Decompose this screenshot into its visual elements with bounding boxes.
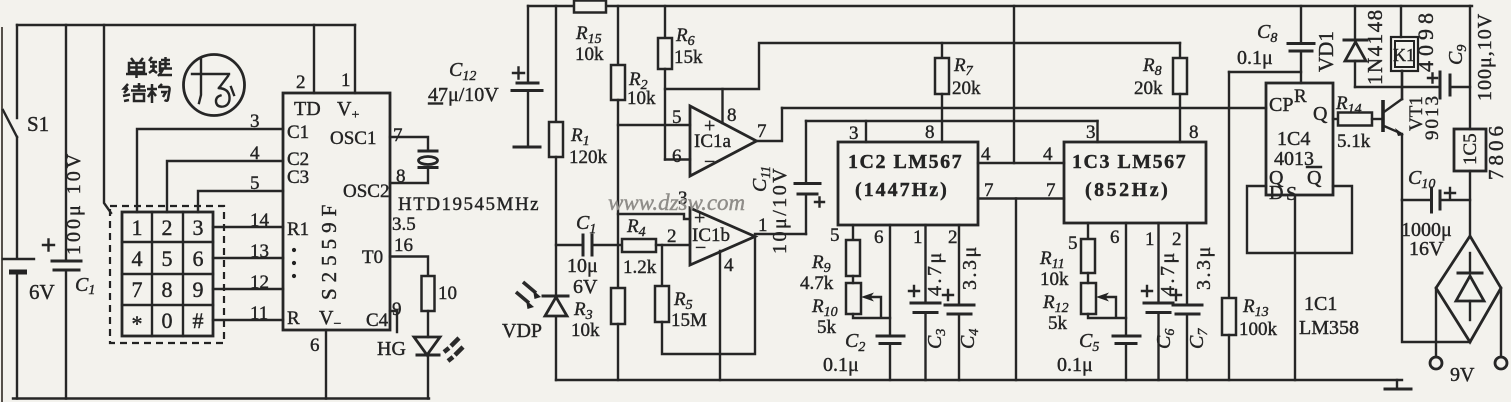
svg-text:6: 6 [193,246,204,271]
svg-text:IC1a: IC1a [694,131,732,152]
svg-text:HG: HG [377,338,406,360]
resistor R13 100k [1228,72,1230,298]
svg-text:5k: 5k [817,317,837,338]
label danjian jiegou (Chinese) [123,57,172,103]
resistor R7 20k [941,43,943,58]
op-amp IC1b [690,208,755,265]
wire R2-R3 column [617,100,619,288]
svg-text:OSC2: OSC2 [343,181,389,202]
wire VD1 to C9 [1355,86,1439,88]
capacitor C3 4.7u [924,225,926,303]
svg-text:6V: 6V [29,280,55,304]
svg-text:3: 3 [193,215,204,240]
svg-text:3.3μ: 3.3μ [959,244,981,290]
capacitor C9 100u10V [1440,72,1450,98]
wire pin5 [618,124,690,126]
wire pin6 [665,158,690,160]
wire left top rail [17,24,355,26]
svg-text:5.1k: 5.1k [1337,131,1371,152]
svg-text:10k: 10k [627,88,656,109]
svg-text:6V: 6V [573,276,598,298]
svg-text:1C4: 1C4 [1277,128,1310,150]
svg-text:CP: CP [1269,94,1293,116]
svg-text:2: 2 [162,215,173,240]
svg-text:10μ: 10μ [567,255,598,277]
svg-text:2: 2 [667,226,677,247]
svg-text:7806: 7806 [1484,122,1508,180]
svg-text:20k: 20k [1134,78,1163,99]
svg-text:T0: T0 [362,247,383,268]
svg-text:K1: K1 [1393,45,1415,65]
svg-text:1: 1 [341,70,351,91]
svg-text:VD1: VD1 [1314,31,1338,72]
svg-text:4098: 4098 [1413,8,1438,72]
svg-text:7: 7 [984,180,994,201]
wire pin1 out IC1b [755,233,806,235]
capacitor C5 0.1u [1125,223,1127,336]
svg-text:Q: Q [1313,103,1328,125]
svg-text:1: 1 [913,227,923,248]
svg-text:15k: 15k [674,47,703,68]
svg-text:4: 4 [724,255,734,276]
wire keypad col3 to pin5 [198,191,283,212]
svg-text:0.1μ: 0.1μ [1057,354,1093,376]
svg-text:15M: 15M [671,310,707,331]
svg-text:20k: 20k [952,78,981,99]
LED arrows [444,338,463,361]
wire C8 node to R13 [1229,71,1301,73]
wire pin2 [313,25,315,93]
wire keypad row1 to pin14 [213,226,283,228]
svg-text:1N4148: 1N4148 [1363,8,1387,85]
wire C11 node to pin3 inputs [806,120,1098,122]
svg-text:3.3μ: 3.3μ [1193,244,1215,290]
svg-text:13: 13 [250,241,269,262]
resistor R10 5k pot [846,283,861,314]
svg-text:www.dzsw.com: www.dzsw.com [608,190,745,215]
svg-text:7: 7 [132,277,143,302]
wire pin1 [354,25,356,93]
svg-text:1C2 LM567: 1C2 LM567 [848,151,963,173]
resistor R14 5.1k [1333,118,1338,120]
svg-text:7: 7 [393,125,403,146]
svg-text:10k: 10k [575,44,604,65]
wire R1 to C1 node [555,157,557,295]
svg-text:#: # [193,308,204,333]
svg-text:5k: 5k [1048,313,1068,334]
svg-text:5: 5 [250,173,260,194]
svg-text:9: 9 [193,277,204,302]
resistor R3 10k [611,288,625,324]
svg-text:120k: 120k [569,147,608,168]
svg-text:7: 7 [757,121,767,142]
wire 4013 bottom bracket [1247,186,1352,253]
svg-text:0.1μ: 0.1μ [1237,47,1273,69]
svg-text:D: D [1269,182,1283,204]
svg-text:3: 3 [250,111,260,132]
svg-text:9: 9 [392,299,402,320]
wire pin9 C4 stub [390,311,397,332]
svg-text:1C3 LM567: 1C3 LM567 [1072,151,1187,173]
svg-text:LM358: LM358 [1299,317,1359,339]
capacitor C4 3.3u [958,225,960,305]
resistor R11 10k [1087,223,1089,239]
IC S2559F box [283,93,390,330]
IC 1C3 LM567 box [1064,142,1206,223]
resistor R9 4.7k [852,225,854,240]
wire pin6 to rail [325,330,327,399]
svg-text:1: 1 [1145,229,1155,250]
MIDDLE BLOCK [428,1,1472,381]
svg-text:1: 1 [132,215,143,240]
wire 1C2 pin3 stub [865,121,867,142]
svg-text:1C1: 1C1 [1304,293,1337,315]
svg-text:S1: S1 [27,112,49,136]
svg-text:9013: 9013 [1422,94,1443,140]
resistor R15 [574,1,606,13]
wire keypad row4 to pin11 [213,319,283,321]
bridge rectifier [1436,236,1501,342]
svg-text:C1: C1 [287,122,309,143]
svg-text:Q: Q [1307,167,1322,189]
resistor R8 20k [1179,43,1181,58]
IC 1C2 LM567 box [838,142,978,225]
svg-text:6: 6 [310,335,320,356]
svg-text:10μ/10V: 10μ/10V [769,166,791,254]
wire pin8 [721,89,723,123]
keypad grid [122,212,213,336]
wire left vertical upper [16,25,18,118]
transistor VT1 9013 [1381,100,1385,132]
svg-text:5: 5 [830,225,840,246]
wire keypad col2 to pin4 [167,161,283,212]
svg-text:16: 16 [394,235,413,256]
page edge line [1,27,3,402]
svg-text:4.7k: 4.7k [800,273,834,294]
svg-text:−: − [704,151,715,173]
svg-text:0: 0 [162,308,173,333]
wire pin4 IC1b [719,251,721,380]
RIGHT BLOCK [1229,6,1508,389]
wire rail drop to 1C5 [1469,6,1471,129]
capacitor C12 [527,6,529,81]
wire keypad col1 to pin3 [137,129,283,212]
svg-text:C3: C3 [287,167,309,188]
wire keypad feed [104,25,111,213]
svg-text:S2559F: S2559F [317,199,341,300]
wire left vertical lower [16,275,18,399]
svg-text:4: 4 [1043,144,1053,165]
svg-text:2: 2 [296,72,306,93]
wire IC1b plus input [618,214,690,219]
capacitor C8 0.1u [1300,6,1302,43]
battery 6V [3,258,34,260]
svg-text:5: 5 [162,246,173,271]
svg-text:10k: 10k [571,320,600,341]
wire keypad row2 to pin13 [213,257,283,259]
svg-text:3.5: 3.5 [392,214,416,235]
wire pin7 gnd [978,197,1064,199]
svg-text:8: 8 [727,105,737,126]
svg-text:TD: TD [294,98,321,120]
resistor R6 15k [664,6,666,38]
resistor R1 120k [555,6,557,122]
svg-text:100k: 100k [1239,319,1278,340]
svg-text:4: 4 [250,143,260,164]
wire pin8 OSC2 [390,168,428,184]
wire 1C3 pin3 stub [1096,121,1098,142]
capacitor C2 0.1u [889,225,891,336]
svg-text:8: 8 [1189,122,1199,143]
svg-text:5: 5 [1068,233,1078,254]
svg-text:16V: 16V [1409,238,1444,260]
relay K1 [1400,6,1402,37]
wire gnd column [1015,199,1017,381]
svg-text:10: 10 [438,283,457,304]
svg-text:(1447Hz): (1447Hz) [855,179,949,201]
op-amp IC1a [690,106,757,176]
svg-text:3: 3 [1086,122,1096,143]
svg-text:4: 4 [981,144,991,165]
wire bottom rail middle [556,379,1402,381]
capacitor C10 1000u16V [1402,199,1430,201]
svg-text:8: 8 [162,277,173,302]
LED HG [427,311,429,337]
capacitor C1 10u [556,244,583,246]
wire AC terminals [1436,288,1501,357]
VDP arrows [523,282,536,293]
svg-text:10k: 10k [1040,269,1069,290]
svg-text:2: 2 [1172,229,1182,250]
wire pin4 VCC [978,162,1064,164]
svg-text:1.2k: 1.2k [623,257,657,278]
svg-text:6: 6 [1110,227,1120,248]
svg-text:*: * [132,311,143,336]
svg-text:VDP: VDP [502,320,542,342]
svg-text:6: 6 [672,146,682,167]
IC 1C4 4013 box [1266,83,1333,195]
svg-text:100μ,10V: 100μ,10V [1474,13,1496,101]
wire R6 node feedback [665,43,1180,89]
resistor R12 5k pot [1081,283,1096,314]
wire top rail [528,5,1472,7]
svg-text:7: 7 [1046,180,1056,201]
svg-text:OSC1: OSC1 [330,128,376,149]
switch S1 [3,110,17,137]
svg-text:14: 14 [250,210,270,231]
svg-text:5: 5 [672,107,682,128]
svg-text:12: 12 [250,272,269,293]
IC 1C5 7806 [1454,129,1486,171]
svg-text:0.1μ: 0.1μ [823,354,859,376]
wire long 108 to CP [782,107,1266,109]
wire bottom rail left [13,397,429,399]
diode VD1 1N4148 [1354,6,1356,40]
svg-text:1C5: 1C5 [1460,133,1481,165]
capacitor C6 4.7u [1157,223,1159,303]
wire pin7 OSC1 [390,137,428,150]
wire bridge bottom to gnd rail [1402,200,1470,342]
svg-text:1: 1 [758,215,768,236]
wire D S stub to gnd [1294,195,1296,380]
wire left vertical mid [16,137,18,258]
wire keypad row3 to pin12 [213,288,283,290]
svg-text:HTD19545MHz: HTD19545MHz [398,194,540,215]
capacitor C11 [805,195,807,234]
svg-text:IC1b: IC1b [692,225,730,246]
svg-text:R: R [1294,86,1307,107]
svg-text:4.7μ: 4.7μ [924,250,946,296]
svg-text:6: 6 [874,227,884,248]
resistor R2 10k [617,6,619,65]
capacitor C1 100u10V [65,25,67,260]
keypad dashed box [110,206,224,343]
svg-text:2: 2 [948,227,958,248]
crystal HTD [419,150,437,153]
capacitor C7 3.3u [1186,223,1188,305]
svg-text:11: 11 [250,303,268,324]
svg-text:(852Hz): (852Hz) [1085,179,1170,201]
svg-text:8: 8 [396,166,406,187]
resistor R4 1.2k [622,239,656,252]
LEFT BLOCK [2,25,540,402]
svg-text:R: R [287,308,300,329]
resistor R5 15M feedback [661,245,663,286]
svg-text:100μ 10V: 100μ 10V [63,151,85,255]
wire pin7 out [757,108,783,141]
circle key symbol [184,55,245,116]
svg-text:C4: C4 [366,310,389,331]
wire VCC column [1013,6,1015,163]
svg-text:4: 4 [132,246,143,271]
svg-text:R1: R1 [287,219,309,240]
svg-text:9V: 9V [1450,364,1475,386]
svg-text:8: 8 [925,122,935,143]
photodiode VDP [543,295,568,298]
resistor 10 [422,276,435,311]
ground [1396,380,1398,388]
